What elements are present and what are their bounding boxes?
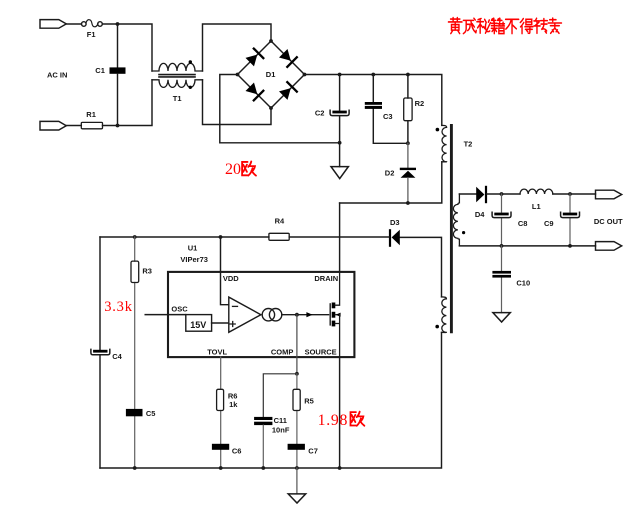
capacitor C8 stub [501,194,503,246]
wire secondary bottom rail [459,245,595,247]
svg-text:L1: L1 [532,202,541,211]
capacitor C1 [110,67,126,73]
resistor R4 [269,233,289,240]
red text char 成 [463,18,476,33]
svg-text:VDD: VDD [223,274,239,283]
capacitor C2 polarized [330,110,349,115]
capacitor C11 [254,417,272,425]
node bridge left [236,73,240,77]
svg-text:TOVL: TOVL [207,347,227,356]
svg-text:DRAIN: DRAIN [314,274,338,283]
resistor R6 [217,389,224,410]
node R1/C1 junction [116,124,120,128]
transformer T1 [152,60,203,89]
wire T1 top right to bridge top [203,24,272,71]
red text char 转 [534,18,547,33]
IC U1 VIPer73 block [168,272,354,357]
node C3 top [371,73,375,77]
gate drive arrow [306,312,312,317]
svg-text:C2: C2 [315,108,325,117]
svg-text:U1: U1 [188,243,198,252]
node R3 top [133,235,137,239]
terminal AC IN top [40,20,66,29]
node C6 ground rail [219,466,223,470]
svg-text:C6: C6 [232,447,242,456]
capacitor C8 polarized [492,212,511,217]
wire ground stub under C2 [339,143,341,167]
wire secondary top to D4 [459,193,476,195]
svg-text:C4: C4 [112,352,122,361]
wire C1 column top [117,24,119,68]
transistor Q1 mosfet gate [329,304,331,325]
svg-text:F1: F1 [87,30,96,39]
svg-text:COMP: COMP [271,347,294,356]
wire bridge left to C2 bottom rail [220,75,340,143]
wire left rail with C4 [99,237,101,468]
node bridge right [303,73,307,77]
svg-text:C1: C1 [95,66,105,75]
wire ground stub bottom [296,468,298,494]
diode D1a top-left [244,47,265,68]
wire T1 bottom right to bridge bottom [203,80,272,125]
fuse F1 [82,20,103,27]
node VDD pin top [219,235,223,239]
box 15V regulator [186,315,212,332]
current source symbol [262,309,282,321]
resistor R1 [81,122,102,128]
wire R1 to T1 bottom left [103,80,153,126]
svg-text:C11: C11 [274,416,287,425]
mosfet body arrow [335,313,340,317]
bridge rectifier D1 frame [238,41,305,108]
svg-text:DC OUT: DC OUT [594,217,623,226]
svg-text:R5: R5 [304,397,314,406]
mosfet drain connection [335,272,339,305]
svg-text:R3: R3 [142,267,152,276]
diode D1d bottom-right [278,80,299,101]
inductor L1 [520,189,553,194]
wire C1 column bottom [117,74,119,126]
svg-text:1k: 1k [229,400,238,409]
svg-text:D1: D1 [266,70,276,79]
red text char 籍 [491,18,504,33]
node fuse/C1 junction [116,22,120,26]
transformer T2 auxiliary winding [442,297,447,333]
capacitor C9 polarized [561,212,580,217]
node C7 ground rail [295,466,299,470]
wire SOURCE pin to ground rail [339,357,341,468]
wire C11 bottom [262,425,264,468]
wire TOVL column [220,357,222,468]
resistor R2 [404,98,412,121]
diode D1c bottom-left [244,81,265,102]
capacitor C5 [126,409,143,416]
svg-text:VIPer73: VIPer73 [180,255,208,264]
svg-text:C5: C5 [146,409,156,418]
transformer T2 core [450,125,453,331]
wire VDD pin into block [221,237,229,305]
node D2 bottom junction [406,201,410,205]
node C2 top [338,73,342,77]
node bridge top [269,39,273,43]
wire R3 column [134,237,136,468]
node COMP branch [295,372,299,376]
terminal AC IN bottom [40,121,66,130]
svg-text:D2: D2 [385,169,395,178]
node gate/COMP junction [295,313,299,317]
wire C2 column [339,75,341,143]
terminal DC OUT top [596,190,622,199]
capacitor C3 [365,102,382,109]
red text char 不 [506,19,519,33]
wire L1 to DC OUT top [553,193,596,195]
svg-text:OSC: OSC [171,304,188,313]
node C9 bottom [568,244,572,248]
svg-text:AC IN: AC IN [47,71,67,80]
node C5 ground rail [133,466,137,470]
svg-text:C9: C9 [544,219,554,228]
wire AC top to fuse [66,23,81,25]
wire C10 column [501,246,503,313]
capacitor C4 polarized [91,349,110,354]
node bridge bottom [269,106,273,110]
ground symbol primary [331,167,348,179]
resistor R3 [131,261,139,282]
wire D4 to L1 node [487,193,520,195]
node SOURCE ground rail [338,466,342,470]
resistor R5 [293,389,300,410]
svg-text:SOURCE: SOURCE [305,347,337,356]
diode D4 [476,186,487,203]
T2 label area wire aux top from D3 [400,237,442,297]
svg-text:T2: T2 [464,140,473,149]
node D4/C8/L1 [500,192,504,196]
svg-text:T1: T1 [173,94,182,103]
svg-text:C8: C8 [518,219,528,228]
red text char 得 [520,19,533,34]
mosfet channel dashes [332,303,336,327]
wire drain vertical to U1 [339,203,341,272]
diode D3 [389,229,400,247]
wire R2 column [407,75,409,144]
svg-text:1.98: 1.98 [318,412,348,429]
wire 15V to comparator plus [212,322,229,324]
T2 aux phase dot [435,325,439,329]
svg-text:C3: C3 [383,112,393,121]
T2 primary phase dot [436,128,440,132]
svg-text:R4: R4 [275,217,285,226]
wire AC bottom to R1 [66,125,81,127]
svg-text:R2: R2 [415,99,425,108]
transformer T2 primary winding [442,125,447,161]
wire top DC rail to T2 primary [305,75,442,126]
wire OSC pin stub [145,314,186,316]
node C11 ground rail [261,466,265,470]
svg-text:R1: R1 [86,110,96,119]
node C2 bottom ground junction [338,141,342,145]
wire C3 column [373,75,408,144]
svg-text:D4: D4 [475,210,485,219]
wire COMP pin [296,315,298,374]
wire current source to gate [282,314,329,316]
svg-text:20: 20 [225,161,241,178]
svg-text:3.3k: 3.3k [104,299,133,315]
wire R5 column [296,374,298,468]
red text char 卖 [548,18,561,33]
wire aux bottom to ground rail [100,332,442,468]
red text char 黄 [448,18,462,34]
mosfet source connection [335,315,339,357]
node C8 bottom [500,244,504,248]
wire D2 top stub [407,143,409,168]
svg-text:10nF: 10nF [272,425,290,434]
wire VDD rail from left to R4 [100,236,269,238]
diode D2 [400,168,416,178]
wire R4 to D3 [289,236,389,238]
diode D1b top-right [278,48,299,69]
capacitor C7 [288,444,305,450]
transformer T2 secondary winding [453,194,459,246]
svg-text:15V: 15V [190,320,206,330]
capacitor C10 [492,271,511,278]
capacitor C6 [212,444,229,450]
wire drain node horizontal [340,162,442,203]
svg-text:C7: C7 [308,447,318,456]
red text char 欧 (20欧) [242,161,256,175]
svg-text:C10: C10 [516,278,530,287]
svg-text:D3: D3 [390,218,400,227]
op-amp comparator U1 internal [229,297,261,332]
node R2 top [406,73,410,77]
red text char 欧 (1.98欧) [350,412,364,426]
ground symbol bottom [288,494,306,503]
node L1/C9 [568,192,572,196]
capacitor C9 stub [569,194,571,246]
node R2/C3/D2 junction [406,141,410,145]
wire fuse to C1 node and on to T1 [102,24,152,71]
terminal DC OUT bottom [596,242,622,251]
T2 secondary phase dot [462,231,465,234]
wire COMP branch to C11 [263,374,297,417]
wire D2 bottom stub [407,178,409,203]
ground symbol secondary [493,313,510,322]
red text char 秘 [477,19,491,34]
